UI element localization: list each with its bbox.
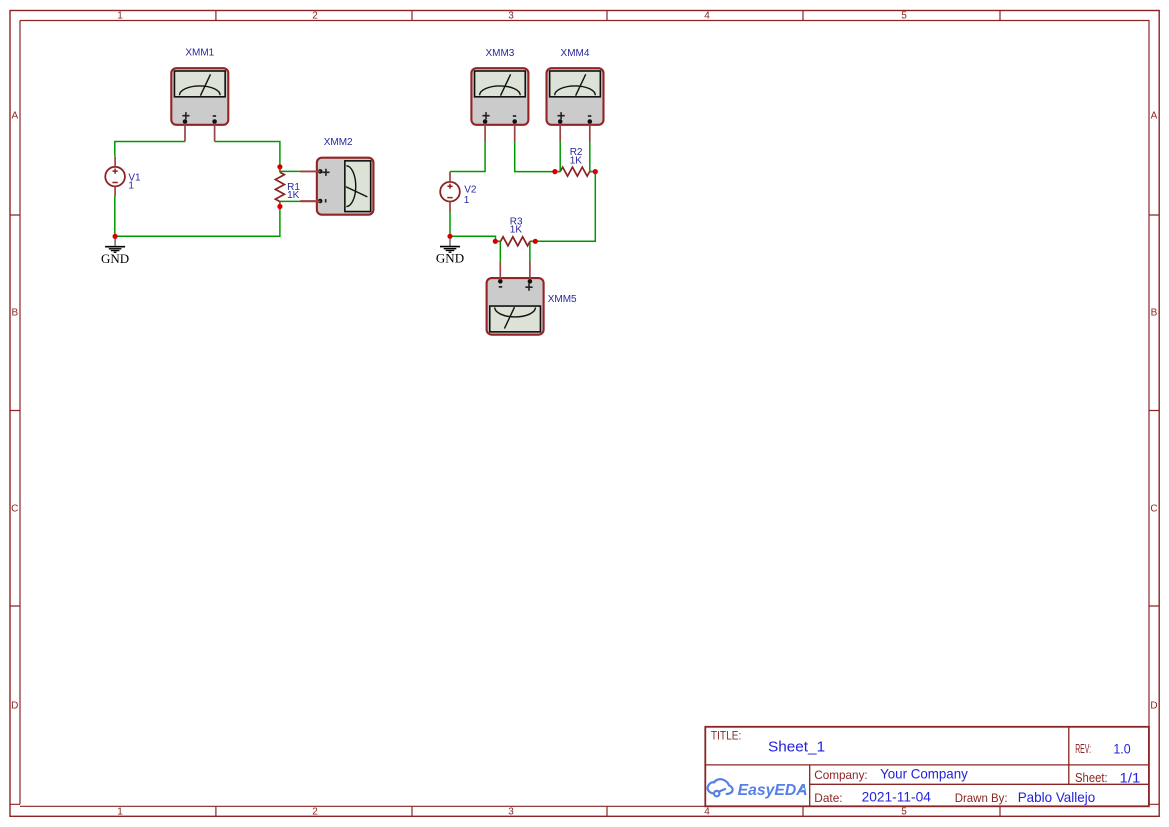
ruler row letters right (1150, 111, 1157, 712)
svg-text:1: 1 (128, 181, 134, 192)
ruler column numbers bottom (117, 807, 907, 818)
title block Drawn By value (1018, 789, 1096, 805)
svg-text:TITLE:: TITLE: (711, 728, 741, 742)
svg-text:A: A (1151, 111, 1158, 122)
svg-text:3: 3 (508, 11, 514, 22)
svg-text:D: D (11, 701, 18, 712)
svg-text:1: 1 (117, 807, 123, 818)
ruler row letters left (11, 111, 18, 712)
title block REV value (1113, 740, 1130, 756)
svg-text:Sheet_1: Sheet_1 (768, 738, 825, 755)
label XMM4 (561, 48, 590, 59)
junction node R1 bottom (277, 204, 282, 209)
svg-text:Sheet:: Sheet: (1075, 770, 1108, 785)
svg-text:Pablo Vallejo: Pablo Vallejo (1018, 789, 1096, 805)
multimeter XMM3 (471, 68, 528, 141)
resistor R2 (555, 167, 595, 176)
title block Date value (862, 789, 932, 805)
svg-text:Company:: Company: (814, 768, 867, 782)
svg-text:5: 5 (901, 11, 907, 22)
junction node R1 top (277, 164, 282, 169)
multimeter XMM5 (487, 261, 544, 334)
title block outline (705, 727, 1149, 807)
label XMM1 (185, 48, 214, 59)
wire top rail left (115, 142, 185, 157)
svg-text:1K: 1K (510, 225, 523, 236)
title block Date label (814, 791, 842, 805)
multimeter XMM1 (171, 68, 228, 141)
svg-text:1K: 1K (287, 190, 300, 201)
svg-text:EasyEDA: EasyEDA (738, 782, 808, 799)
svg-text:XMM1: XMM1 (185, 48, 214, 59)
junction node GND2 (447, 234, 452, 239)
multimeter XMM4 (547, 68, 604, 141)
wire R3 right to XMM5 plus (529, 241, 531, 261)
resistor R3 (495, 237, 535, 246)
label R1 1K (287, 182, 300, 201)
label R3 1K (510, 217, 523, 236)
label V2 (464, 185, 477, 206)
svg-text:2: 2 (312, 807, 318, 818)
junction node R3 left (493, 239, 498, 244)
svg-text:B: B (1151, 308, 1158, 319)
wire bottom rail (115, 207, 280, 237)
ruler ticks top (216, 11, 1000, 21)
wire V2 to ground rail (449, 211, 451, 236)
svg-text:4: 4 (704, 11, 710, 22)
svg-text:1/1: 1/1 (1120, 770, 1141, 786)
svg-text:Your Company: Your Company (880, 766, 968, 782)
ruler column numbers top (117, 11, 907, 22)
junction node R2 right (593, 169, 598, 174)
wire ground rail to R3 left (450, 236, 496, 241)
ruler ticks right (1149, 215, 1159, 606)
svg-text:A: A (11, 111, 18, 122)
title block Sheet label (1075, 770, 1108, 785)
wire top rail right (215, 142, 280, 167)
svg-text:REV:: REV: (1075, 742, 1091, 756)
svg-text:4: 4 (704, 807, 710, 818)
svg-text:B: B (11, 308, 18, 319)
label XMM2 (324, 137, 353, 148)
svg-text:1.0: 1.0 (1113, 740, 1130, 756)
title block TITLE label (711, 728, 741, 742)
voltage source V1 (105, 157, 125, 197)
wire XMM4 minus down (589, 142, 591, 172)
svg-text:Drawn By:: Drawn By: (955, 791, 1008, 805)
wire V1 to ground rail (114, 196, 116, 236)
ground GND2 (436, 238, 464, 265)
svg-text:XMM5: XMM5 (548, 294, 577, 305)
svg-text:XMM3: XMM3 (485, 48, 514, 59)
voltage source V2 (440, 172, 460, 212)
junction node R3 right (533, 239, 538, 244)
svg-text:2: 2 (312, 11, 318, 22)
title block Company value (880, 766, 968, 782)
ruler ticks bottom (216, 806, 1000, 816)
wire XMM3 plus to V2 (450, 142, 485, 172)
multimeter XMM2 (300, 158, 373, 215)
junction node R2 left (552, 169, 557, 174)
title block REV label (1075, 742, 1091, 756)
title block Company label (814, 768, 867, 782)
label XMM5 (548, 294, 577, 305)
junction node GND1 (113, 234, 118, 239)
wire R3 left to XMM5 minus (499, 241, 501, 261)
svg-text:2021-11-04: 2021-11-04 (862, 789, 932, 805)
label XMM3 (485, 48, 514, 59)
svg-text:3: 3 (508, 807, 514, 818)
svg-text:C: C (11, 504, 18, 515)
svg-text:5: 5 (901, 807, 907, 818)
svg-text:1: 1 (117, 11, 123, 22)
label V1 (128, 172, 141, 191)
title block Drawn By label (955, 791, 1008, 805)
wire XMM3 minus to R2 left (515, 142, 555, 172)
title block sheet name value (768, 738, 825, 755)
title block Sheet value (1120, 770, 1141, 786)
resistor R1 (275, 167, 284, 207)
wire R2 right to R3 right (535, 172, 595, 242)
EasyEDA logo (708, 779, 808, 799)
svg-text:XMM2: XMM2 (324, 137, 353, 148)
ground GND1 (101, 238, 129, 265)
label R2 1K (570, 147, 583, 166)
svg-text:XMM4: XMM4 (561, 48, 590, 59)
wire R1 bottom to XMM2 minus (280, 200, 321, 202)
wire XMM4 plus down (559, 142, 561, 172)
svg-text:D: D (1150, 701, 1157, 712)
svg-text:C: C (1150, 504, 1157, 515)
ruler ticks left (10, 215, 20, 606)
wire R1 top to XMM2 plus (280, 170, 321, 172)
svg-text:1: 1 (464, 195, 470, 206)
svg-text:Date:: Date: (814, 791, 842, 805)
svg-text:1K: 1K (570, 156, 583, 167)
